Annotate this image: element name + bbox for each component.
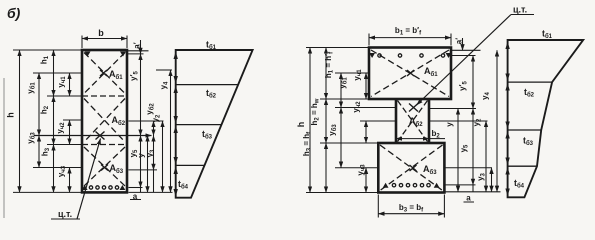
svg-text:h2: h2 <box>40 105 51 114</box>
dimension y4 (right fig): line <box>496 50 498 192</box>
svg-text:Aб1: Aб1 <box>424 66 438 78</box>
right section: bottom rebar dots <box>392 184 430 187</box>
left section: zone 1 centroid cross <box>100 70 107 76</box>
left fig: extension line top edge level <box>13 49 82 51</box>
dimension y (right fig): line <box>457 109 459 192</box>
dimension y3: line <box>153 136 155 170</box>
svg-text:a′: a′ <box>133 42 142 48</box>
left section: bottom rebar left triangle <box>82 185 88 190</box>
svg-text:tб3: tб3 <box>202 129 213 141</box>
right section: web outline <box>396 99 429 143</box>
temperature diagram 1: left edge chain arrows <box>174 52 178 197</box>
temperature diagram 1: band line 1 <box>176 84 239 86</box>
temperature diagram 1: outline <box>176 50 253 198</box>
right section: top rebar left triangle <box>369 53 375 58</box>
svg-text:a: a <box>466 194 471 203</box>
svg-text:yб1: yб1 <box>338 77 349 89</box>
svg-text:Aб2: Aб2 <box>409 116 423 128</box>
svg-text:b3 = bf: b3 = bf <box>399 203 424 214</box>
dimension b3=bf: line <box>378 213 444 215</box>
svg-text:yб3: yб3 <box>328 124 339 136</box>
dimension b1=b'f: line <box>369 37 451 39</box>
right fig right side: extension web centroid level <box>429 120 488 122</box>
scan artifact: faint page edge line <box>3 78 5 218</box>
svg-text:b1 = b′f: b1 = b′f <box>395 26 422 37</box>
svg-text:h2 = hw: h2 = hw <box>310 98 321 125</box>
dimension y3 (right fig): line <box>491 168 493 192</box>
svg-text:y2: y2 <box>472 118 483 126</box>
svg-text:yч2: yч2 <box>352 101 363 113</box>
svg-text:Aб3: Aб3 <box>423 164 437 176</box>
right fig: extension zone3 centroid level <box>335 167 378 169</box>
temperature diagram 2: band line 2 <box>508 129 542 131</box>
svg-text:Aб1: Aб1 <box>109 69 123 81</box>
dimension y3 lower extension <box>153 170 155 193</box>
svg-text:b2: b2 <box>432 129 441 140</box>
svg-text:h: h <box>6 112 16 118</box>
dimension a (right fig): underline <box>464 201 475 203</box>
centroid leader line (left figure) <box>77 139 101 220</box>
right section: top flange outline <box>369 48 451 100</box>
left fig: extension line bottom edge level <box>13 191 82 193</box>
dimension h: line <box>19 50 21 192</box>
left section: centroid horizontal axis line <box>34 135 152 137</box>
left fig: extension line boundary2 level <box>47 144 82 146</box>
right fig: extension zone1 centroid level <box>335 72 369 74</box>
svg-text:y4: y4 <box>481 91 492 99</box>
svg-text:yч2: yч2 <box>56 122 67 134</box>
left section: top rebar left triangle <box>85 52 91 57</box>
temperature diagram 2: outline <box>508 40 584 197</box>
svg-text:h3: h3 <box>41 147 52 156</box>
right section: bottom flange outline <box>378 143 444 193</box>
temperature diagram 1: band line 3 <box>176 164 205 166</box>
dimension y2 (right fig): line <box>485 121 487 192</box>
right section: top flange diagonals <box>371 50 449 97</box>
svg-text:yб1: yб1 <box>26 82 37 94</box>
right section: bottom flange diagonals <box>380 145 443 191</box>
dimension y_b2: line <box>153 121 155 136</box>
left section: centroid cross (ц.т.) <box>96 132 105 140</box>
dimension b: line <box>82 38 127 40</box>
left fig: extension line zone2 centroid level <box>63 119 82 121</box>
temperature diagram 1: band line 2 <box>176 124 222 126</box>
dimension y_ч3: line <box>69 168 71 193</box>
right fig: extension bottom edge level <box>306 192 378 194</box>
centroid leader line (right figure) <box>417 15 512 106</box>
dimension b: extension lines <box>82 36 127 49</box>
left fig right side: extension zone3 centroid level <box>129 169 158 171</box>
left fig: extension line zone3 centroid level <box>33 167 82 169</box>
svg-text:tб2: tб2 <box>524 87 535 99</box>
temperature diagram 2: band line 1 <box>508 81 552 83</box>
svg-text:tб1: tб1 <box>542 29 553 41</box>
svg-text:h: h <box>296 122 306 128</box>
left section: zone boundary 1 (dashed) <box>82 95 127 97</box>
dimension y_b1 (right fig): line <box>340 73 342 108</box>
dimension h3: line <box>53 145 55 193</box>
dimension b1=b'f: extension lines <box>369 34 451 46</box>
dimension h2: line <box>53 96 55 145</box>
dimension y2: line <box>162 121 164 192</box>
dimension y_ч2: line <box>69 120 71 145</box>
svg-text:h3 = hf: h3 = hf <box>302 131 313 156</box>
right fig: extension flange bottom level <box>320 98 369 100</box>
right section: top rebar dots <box>378 54 445 57</box>
left section: zone 3 centroid cross <box>101 165 108 171</box>
dimension a bottom: underline <box>130 199 141 201</box>
left section: zone 2 diagonals <box>84 99 125 143</box>
left fig: extension line boundary1 level <box>47 95 82 97</box>
dimension y_ч1: line <box>69 73 71 96</box>
dimension y5 (right fig): line <box>472 109 474 185</box>
left section: rectangle outline <box>82 50 127 192</box>
left section: top rebar right triangle <box>120 52 126 57</box>
left section: bottom rebar dots <box>89 186 118 189</box>
right fig right side: extension top rebar level <box>451 55 476 57</box>
svg-text:y: y <box>445 122 454 127</box>
dimension y5 (right fig): lower extension <box>472 185 474 192</box>
dimension h2=hw: line <box>325 99 327 143</box>
dimension y_ч1 (right fig): line <box>365 73 367 99</box>
right fig: extension web centroid level <box>360 120 396 122</box>
left section: zone 1 diagonals <box>84 53 125 94</box>
left fig: extension line zone1 centroid level <box>33 72 82 74</box>
right section: zone3 centroid cross <box>410 165 417 171</box>
dimension y5: line <box>140 136 142 188</box>
dimension b2: line with arrows <box>396 138 429 140</box>
svg-text:tб4: tб4 <box>514 178 525 190</box>
svg-text:y3: y3 <box>476 172 487 180</box>
dimension y_ч2 (right fig): line <box>365 121 367 143</box>
svg-text:tб2: tб2 <box>206 88 217 100</box>
right fig: extension top edge level <box>306 47 369 49</box>
right fig right side: extension top edge level <box>451 49 481 51</box>
svg-text:y5: y5 <box>459 144 470 152</box>
svg-text:yб3: yб3 <box>26 132 37 144</box>
svg-text:y4: y4 <box>159 81 170 89</box>
dimension y_ч3 (right fig): line <box>365 168 367 193</box>
right fig right side: extension bottom rebar level <box>444 184 475 186</box>
dimension h (right fig): line <box>309 48 311 193</box>
right fig: extension boundary2 level <box>320 142 378 144</box>
right section: centroid cross (ц.т.) <box>409 104 418 112</box>
svg-text:Aб2: Aб2 <box>112 115 126 127</box>
centroid label underline (left figure) <box>51 218 80 220</box>
svg-text:h1 = h′f: h1 = h′f <box>324 51 335 78</box>
left fig right side: extension zone2 centroid level <box>129 120 164 122</box>
left fig right side: extension bottom rebar level <box>129 187 143 189</box>
svg-text:tб1: tб1 <box>206 40 217 52</box>
temperature diagram 2: band line 3 <box>508 165 537 167</box>
dimension a' top right: extension lines <box>126 51 149 54</box>
dimension h1: line <box>53 50 55 96</box>
dimension y'5 (right fig): line <box>472 56 474 109</box>
dimension y5: lower extension <box>140 188 142 193</box>
svg-text:yч1: yч1 <box>353 69 364 81</box>
svg-text:h1: h1 <box>40 55 51 64</box>
svg-text:Aб3: Aб3 <box>110 163 124 175</box>
svg-text:б): б) <box>7 5 21 21</box>
svg-text:tб3: tб3 <box>523 136 534 148</box>
left section: zone 3 diagonals <box>84 147 125 186</box>
svg-text:yб2: yб2 <box>145 103 156 115</box>
right fig right side: extension bottom baseline <box>444 191 500 193</box>
left fig right side: extension upper level for y4 <box>156 69 172 71</box>
right section: bottom rebar right triangle <box>434 183 440 188</box>
dimension y: line <box>147 136 149 193</box>
svg-text:yч1: yч1 <box>57 76 68 88</box>
right fig right side: extension zone3 centroid level <box>444 167 492 169</box>
dimension a' top right: tick <box>140 40 142 54</box>
dimension a' (right fig): tick <box>462 38 464 50</box>
dimension y_b1: line <box>38 73 40 136</box>
dimension h3=hf: line <box>325 143 327 193</box>
dimension y'5: line <box>140 54 142 136</box>
left section: bottom rebar right triangle <box>120 185 126 190</box>
dimension y_b3: line <box>38 136 40 168</box>
svg-text:ц.т.: ц.т. <box>58 209 72 219</box>
right section: zone1 centroid cross <box>407 70 414 76</box>
svg-text:b: b <box>98 28 104 38</box>
right section: top rebar right triangle <box>446 53 452 58</box>
dimension b3=bf: extension lines <box>378 195 444 218</box>
svg-text:yч3: yч3 <box>356 164 367 176</box>
right fig: extension centroid level left <box>335 107 396 109</box>
svg-text:y: y <box>137 153 146 158</box>
svg-text:tб4: tб4 <box>178 179 189 191</box>
right section: bottom rebar left triangle <box>383 183 389 188</box>
left fig right side: extension bottom edge baseline <box>129 191 173 193</box>
dimension h1=h'f: line <box>325 48 327 100</box>
svg-text:y′5: y′5 <box>129 70 140 80</box>
svg-text:y′5: y′5 <box>458 80 469 90</box>
right fig right side: extension centroid level <box>429 108 476 110</box>
centroid label underline (right figure) <box>511 14 534 16</box>
dimension y_b3 (right fig): line <box>340 108 342 168</box>
dimension y4: line <box>170 70 172 192</box>
right section: web diagonals <box>398 101 428 142</box>
left section: zone boundary 2 (dashed) <box>82 144 127 146</box>
temperature diagram 2: left edge chain arrows <box>505 42 509 197</box>
svg-text:ц.т.: ц.т. <box>513 5 527 15</box>
